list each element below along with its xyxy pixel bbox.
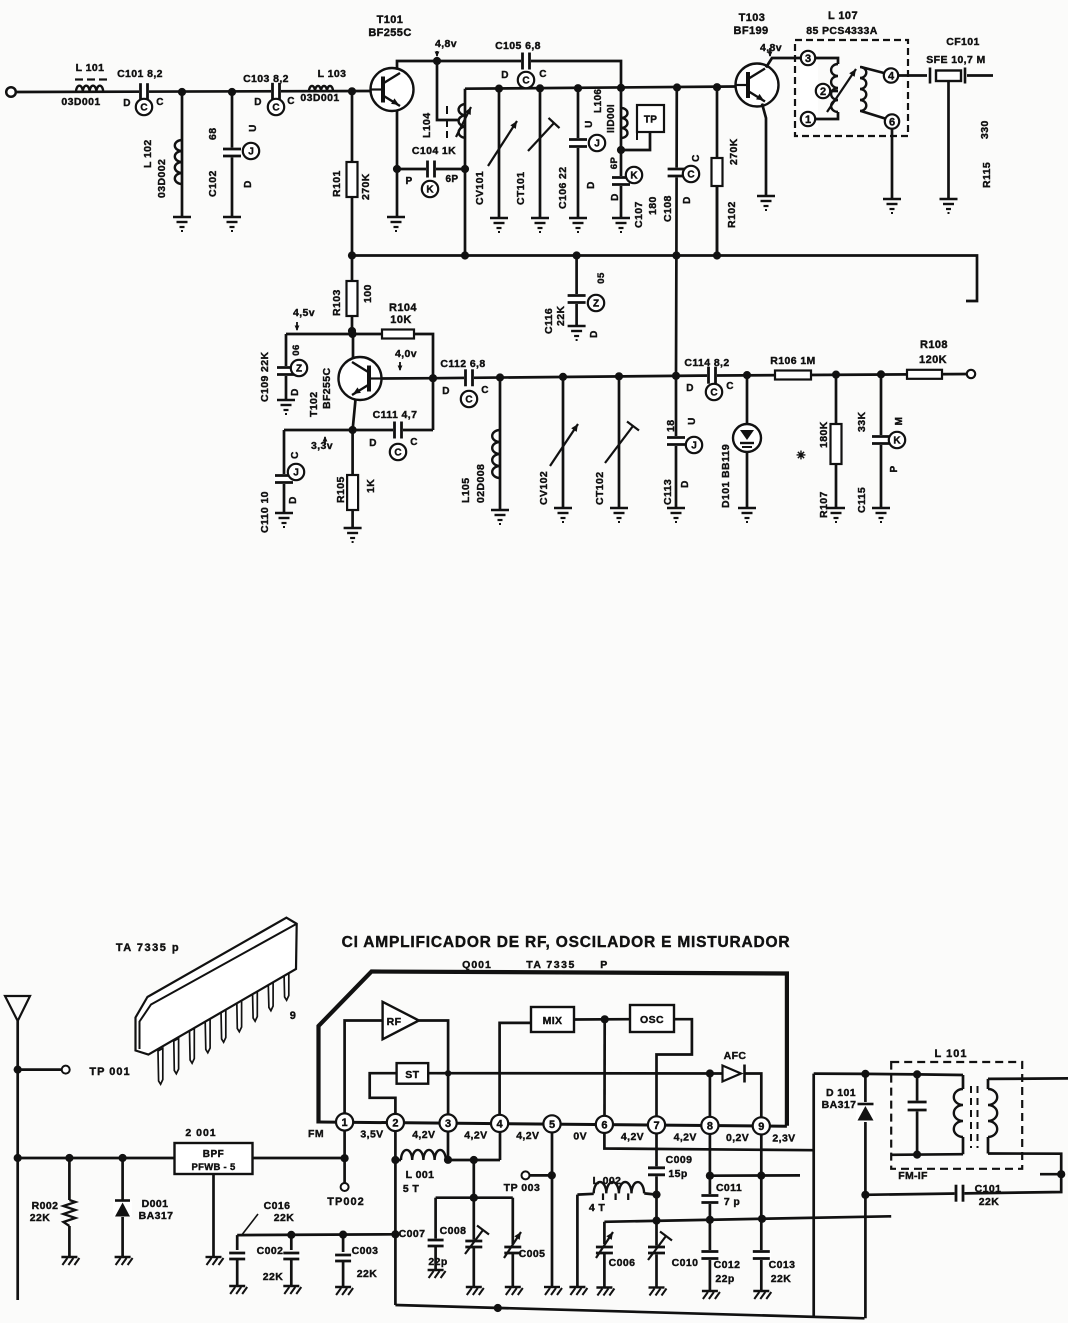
svg-text:1K: 1K: [365, 479, 377, 493]
svg-text:L 001: L 001: [406, 1169, 435, 1181]
svg-text:C007: C007: [399, 1228, 426, 1240]
svg-text:IID00I: IID00I: [606, 104, 617, 133]
svg-text:L106: L106: [593, 89, 604, 113]
svg-text:270K: 270K: [360, 173, 372, 200]
svg-text:R108: R108: [920, 339, 948, 351]
svg-text:R115: R115: [981, 162, 993, 188]
svg-text:8: 8: [707, 1120, 713, 1132]
svg-text:T102: T102: [308, 391, 320, 417]
svg-text:C104 1K: C104 1K: [412, 145, 456, 157]
svg-text:03D001: 03D001: [61, 96, 100, 108]
svg-text:C106 22: C106 22: [557, 167, 569, 210]
svg-text:0V: 0V: [573, 1130, 587, 1142]
svg-text:22K: 22K: [357, 1268, 377, 1280]
svg-text:7 p: 7 p: [724, 1196, 740, 1208]
svg-text:C012: C012: [714, 1259, 741, 1271]
svg-text:R106 1M: R106 1M: [770, 355, 815, 367]
svg-text:C105 6,8: C105 6,8: [495, 40, 541, 52]
svg-text:P: P: [405, 176, 412, 187]
svg-text:22K: 22K: [555, 306, 567, 326]
svg-text:K: K: [426, 185, 434, 196]
svg-text:C: C: [726, 381, 734, 392]
svg-text:05: 05: [596, 272, 607, 284]
svg-text:CV102: CV102: [538, 471, 550, 505]
svg-text:D: D: [589, 330, 600, 338]
svg-text:CI AMPLIFICADOR DE RF, OSCILAD: CI AMPLIFICADOR DE RF, OSCILADOR E MISTU…: [342, 934, 791, 951]
svg-text:6P: 6P: [445, 174, 458, 185]
svg-text:C008: C008: [440, 1225, 467, 1237]
svg-text:C: C: [156, 97, 164, 108]
svg-text:D: D: [680, 480, 691, 488]
svg-text:K: K: [893, 436, 901, 447]
svg-text:22K: 22K: [771, 1273, 791, 1285]
svg-text:D: D: [243, 180, 254, 188]
svg-text:C003: C003: [352, 1245, 379, 1257]
svg-text:L 002: L 002: [593, 1175, 622, 1187]
svg-text:J: J: [293, 468, 299, 479]
svg-text:L 101: L 101: [76, 62, 105, 74]
svg-text:D: D: [442, 386, 450, 397]
svg-text:TP: TP: [644, 115, 657, 126]
svg-text:4: 4: [497, 1118, 504, 1130]
svg-text:C108: C108: [662, 195, 674, 222]
svg-text:10K: 10K: [390, 314, 411, 326]
svg-text:D: D: [501, 70, 509, 81]
svg-text:85 PCS4333A: 85 PCS4333A: [806, 25, 878, 37]
svg-text:BF255C: BF255C: [368, 27, 411, 39]
svg-text:C101: C101: [975, 1183, 1002, 1195]
svg-text:06: 06: [291, 344, 302, 355]
svg-text:R102: R102: [726, 201, 738, 228]
svg-text:22p: 22p: [428, 1256, 447, 1268]
svg-text:D 101: D 101: [826, 1087, 856, 1099]
svg-text:2,3V: 2,3V: [772, 1133, 795, 1145]
svg-text:4,8v: 4,8v: [760, 42, 782, 54]
svg-text:D: D: [123, 98, 131, 109]
svg-text:4,2V: 4,2V: [412, 1129, 435, 1141]
svg-text:180K: 180K: [818, 421, 830, 448]
svg-text:18: 18: [665, 420, 677, 432]
svg-text:CF101: CF101: [946, 36, 980, 48]
svg-text:SFE 10,7 M: SFE 10,7 M: [926, 54, 985, 66]
svg-text:D101 BB119: D101 BB119: [720, 444, 732, 508]
svg-text:C: C: [272, 103, 279, 114]
svg-text:BPF: BPF: [203, 1149, 225, 1160]
svg-text:CT102: CT102: [594, 471, 606, 505]
svg-text:68: 68: [207, 128, 219, 140]
svg-text:R107: R107: [818, 491, 830, 518]
svg-text:K: K: [630, 171, 638, 182]
svg-text:CV101: CV101: [474, 171, 486, 205]
svg-text:C112 6,8: C112 6,8: [440, 358, 485, 370]
svg-text:6: 6: [889, 117, 895, 129]
svg-text:4,5v: 4,5v: [293, 307, 315, 319]
svg-text:✳: ✳: [796, 450, 805, 462]
svg-text:2 001: 2 001: [185, 1127, 216, 1139]
svg-text:FM: FM: [308, 1128, 324, 1140]
svg-text:22p: 22p: [715, 1273, 734, 1285]
svg-text:4,0v: 4,0v: [395, 348, 417, 360]
svg-text:4 T: 4 T: [589, 1202, 606, 1214]
svg-text:6P: 6P: [609, 157, 620, 170]
svg-text:2: 2: [392, 1118, 398, 1130]
svg-text:4,2V: 4,2V: [674, 1131, 697, 1143]
svg-text:M: M: [894, 417, 905, 426]
svg-text:C005: C005: [519, 1248, 546, 1260]
svg-text:CT101: CT101: [515, 171, 527, 205]
svg-text:C009: C009: [666, 1154, 693, 1166]
svg-text:22K: 22K: [274, 1212, 294, 1224]
svg-text:330: 330: [979, 120, 991, 139]
svg-text:1: 1: [805, 114, 811, 126]
svg-text:U: U: [584, 120, 595, 128]
svg-text:22K: 22K: [263, 1271, 283, 1283]
svg-text:C: C: [691, 154, 702, 162]
svg-text:C011: C011: [716, 1182, 742, 1194]
svg-text:J: J: [691, 441, 697, 452]
svg-text:C: C: [481, 385, 489, 396]
svg-text:P: P: [889, 465, 900, 472]
svg-text:Q001: Q001: [462, 959, 492, 971]
svg-text:R002: R002: [32, 1200, 59, 1212]
svg-text:C: C: [287, 96, 295, 107]
svg-text:22K: 22K: [979, 1196, 999, 1208]
svg-text:U: U: [687, 417, 698, 425]
svg-text:C109 22K: C109 22K: [259, 352, 271, 402]
svg-text:L 103: L 103: [318, 68, 347, 80]
svg-text:3,3v: 3,3v: [311, 440, 333, 452]
svg-text:MIX: MIX: [543, 1015, 563, 1027]
svg-text:C: C: [394, 448, 401, 459]
svg-text:C: C: [539, 69, 547, 80]
svg-text:C: C: [410, 437, 418, 448]
svg-text:D: D: [610, 193, 621, 201]
svg-text:4,2V: 4,2V: [516, 1130, 539, 1142]
svg-text:9: 9: [758, 1121, 764, 1133]
svg-text:C013: C013: [769, 1259, 796, 1271]
svg-text:J: J: [594, 139, 600, 150]
svg-text:02D008: 02D008: [475, 464, 487, 503]
svg-text:3: 3: [805, 53, 811, 65]
svg-text:TP 001: TP 001: [89, 1066, 130, 1078]
svg-text:TA 7335: TA 7335: [526, 959, 576, 971]
svg-text:R103: R103: [331, 289, 343, 316]
svg-text:270K: 270K: [728, 138, 740, 165]
svg-text:7: 7: [653, 1120, 659, 1132]
svg-text:R101: R101: [331, 170, 343, 197]
svg-text:C010: C010: [672, 1257, 699, 1269]
svg-text:120K: 120K: [919, 354, 947, 366]
svg-text:L 101: L 101: [935, 1048, 968, 1060]
svg-text:RF: RF: [387, 1016, 402, 1028]
svg-text:C115: C115: [856, 487, 868, 513]
svg-text:3,5V: 3,5V: [360, 1129, 383, 1141]
svg-text:AFC: AFC: [724, 1050, 747, 1062]
svg-text:5: 5: [549, 1119, 555, 1131]
svg-text:C002: C002: [257, 1245, 284, 1257]
svg-text:3: 3: [445, 1118, 451, 1130]
svg-text:U: U: [248, 124, 259, 132]
svg-text:C102: C102: [207, 170, 219, 197]
svg-text:22K: 22K: [30, 1212, 50, 1224]
svg-text:C107: C107: [633, 201, 645, 228]
svg-text:L104: L104: [421, 112, 433, 138]
svg-text:C101 8,2: C101 8,2: [117, 68, 163, 80]
svg-text:Z: Z: [296, 364, 302, 375]
svg-text:C: C: [465, 395, 472, 406]
svg-text:D: D: [288, 496, 299, 504]
svg-text:P: P: [600, 959, 607, 971]
svg-text:T103: T103: [739, 12, 766, 24]
svg-text:D: D: [369, 438, 377, 449]
svg-text:D: D: [290, 388, 301, 396]
svg-text:C016: C016: [264, 1200, 291, 1212]
svg-text:BF199: BF199: [733, 25, 768, 37]
svg-text:C: C: [687, 170, 694, 181]
svg-text:TP 003: TP 003: [504, 1182, 541, 1194]
svg-text:PFWB - 5: PFWB - 5: [191, 1162, 236, 1173]
svg-text:C: C: [710, 388, 717, 399]
svg-text:9: 9: [290, 1010, 297, 1022]
svg-text:D: D: [586, 181, 597, 189]
svg-text:4,2V: 4,2V: [621, 1131, 644, 1143]
svg-text:J: J: [248, 147, 254, 158]
svg-text:C114 8,2: C114 8,2: [684, 357, 729, 369]
svg-text:BA317: BA317: [139, 1210, 174, 1222]
svg-text:C113: C113: [662, 479, 674, 505]
svg-text:T101: T101: [377, 14, 404, 26]
svg-text:4: 4: [888, 71, 895, 83]
svg-text:TA 7335 p: TA 7335 p: [116, 942, 180, 954]
svg-text:C006: C006: [609, 1257, 636, 1269]
svg-text:5 T: 5 T: [403, 1183, 420, 1195]
svg-text:L 107: L 107: [828, 10, 858, 22]
svg-text:C103 8,2: C103 8,2: [243, 73, 289, 85]
svg-text:C110 10: C110 10: [259, 491, 271, 533]
svg-text:Z: Z: [593, 299, 599, 310]
svg-text:15p: 15p: [668, 1168, 687, 1180]
svg-text:4,2V: 4,2V: [464, 1130, 487, 1142]
svg-text:C: C: [140, 103, 147, 114]
svg-text:L 102: L 102: [142, 139, 154, 168]
svg-text:OSC: OSC: [640, 1014, 664, 1026]
svg-text:100: 100: [362, 284, 374, 303]
svg-text:C116: C116: [543, 308, 555, 334]
svg-text:C: C: [522, 76, 529, 87]
svg-text:C111 4,7: C111 4,7: [373, 409, 418, 421]
svg-text:BF255C: BF255C: [321, 367, 333, 409]
svg-text:TP002: TP002: [327, 1196, 364, 1208]
svg-text:6: 6: [601, 1119, 607, 1131]
svg-text:4,8v: 4,8v: [435, 38, 457, 50]
svg-text:BA317: BA317: [822, 1099, 857, 1111]
svg-text:R104: R104: [389, 302, 417, 314]
svg-text:2: 2: [820, 86, 826, 98]
svg-text:1: 1: [342, 1117, 348, 1129]
svg-text:C: C: [290, 451, 301, 459]
svg-text:D: D: [686, 383, 694, 394]
svg-text:33K: 33K: [856, 412, 868, 432]
svg-text:ST: ST: [405, 1069, 419, 1081]
svg-text:D: D: [254, 97, 262, 108]
svg-text:L105: L105: [460, 477, 472, 503]
svg-text:R105: R105: [335, 476, 347, 503]
svg-text:D: D: [682, 196, 693, 204]
svg-text:180: 180: [647, 196, 659, 215]
svg-text:03D002: 03D002: [156, 159, 168, 198]
svg-text:0,2V: 0,2V: [726, 1132, 749, 1144]
svg-text:FM-IF: FM-IF: [898, 1170, 928, 1182]
svg-text:03D001: 03D001: [300, 92, 339, 104]
svg-text:D001: D001: [142, 1198, 169, 1210]
